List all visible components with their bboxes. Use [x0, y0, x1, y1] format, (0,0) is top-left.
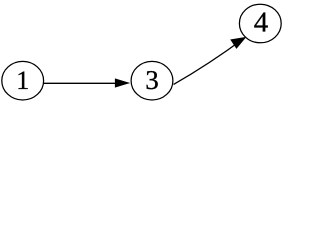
svg-text:3: 3: [145, 65, 159, 95]
svg-text:1: 1: [16, 66, 29, 95]
svg-text:4: 4: [254, 7, 269, 39]
